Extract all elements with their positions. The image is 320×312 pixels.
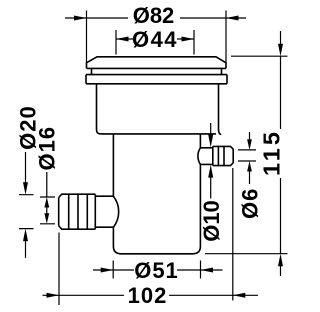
arrow Ø6 top [247,139,252,150]
arrow Ø44 right [182,37,195,42]
right barb fillet curve [198,148,201,165]
svg-text:Ø51: Ø51 [134,258,179,283]
lid neck band [92,68,222,74]
dim Ø82 line [65,17,246,19]
svg-text:Ø82: Ø82 [133,3,175,28]
arrow Ø10 bottom [208,165,213,178]
arrow 102 left [47,293,60,298]
arrow Ø82 right [226,16,239,21]
arrow Ø20 bottom [23,229,28,242]
svg-text:Ø16: Ø16 [35,126,60,171]
arrow 102 right [233,293,246,298]
lower body [113,134,200,254]
dim Ø44 tails [116,38,194,40]
svg-text:115: 115 [259,129,285,176]
dim Ø51 extension lines [113,261,200,279]
arrow Ø16 down [44,213,49,224]
dim Ø16 leader+ticks [40,172,55,224]
svg-text:102: 102 [128,283,168,308]
dim Ø20 leader+ticks [19,152,34,258]
arrow Ø82 left [74,16,87,21]
arrow Ø44 left [116,37,129,42]
left barb fillet curve [113,196,118,227]
lid cap Ø82 [87,57,227,69]
arrow Ø6 bottom [247,161,252,172]
arrow 115 top [278,44,283,57]
right hose barb Ø10 [200,146,212,165]
arrow Ø20 top [23,182,28,195]
dim Ø82 extension lines [87,11,227,63]
dim Ø10 leader lines [210,123,212,199]
svg-text:Ø6: Ø6 [238,188,263,219]
arrow Ø51 left [101,268,114,273]
arrow Ø10 top [208,135,213,148]
dim Ø44 ticks [116,30,194,55]
dim 115 line [280,31,282,276]
arrow 115 bottom [278,254,283,267]
dim Ø51 line [93,269,223,271]
left hose barb Ø20 [95,194,113,229]
svg-text:Ø44: Ø44 [132,27,178,52]
lid flange [86,75,227,84]
svg-text:Ø10: Ø10 [199,200,224,242]
arrow Ø16 up [44,197,49,208]
dim 102 extension lines [59,168,233,305]
arrow Ø51 right [201,268,214,273]
dim Ø6 ticks+leaders [238,132,256,184]
upper body [97,84,222,135]
dim 115 extension lines [205,56,288,254]
dim 102 line [43,294,259,296]
